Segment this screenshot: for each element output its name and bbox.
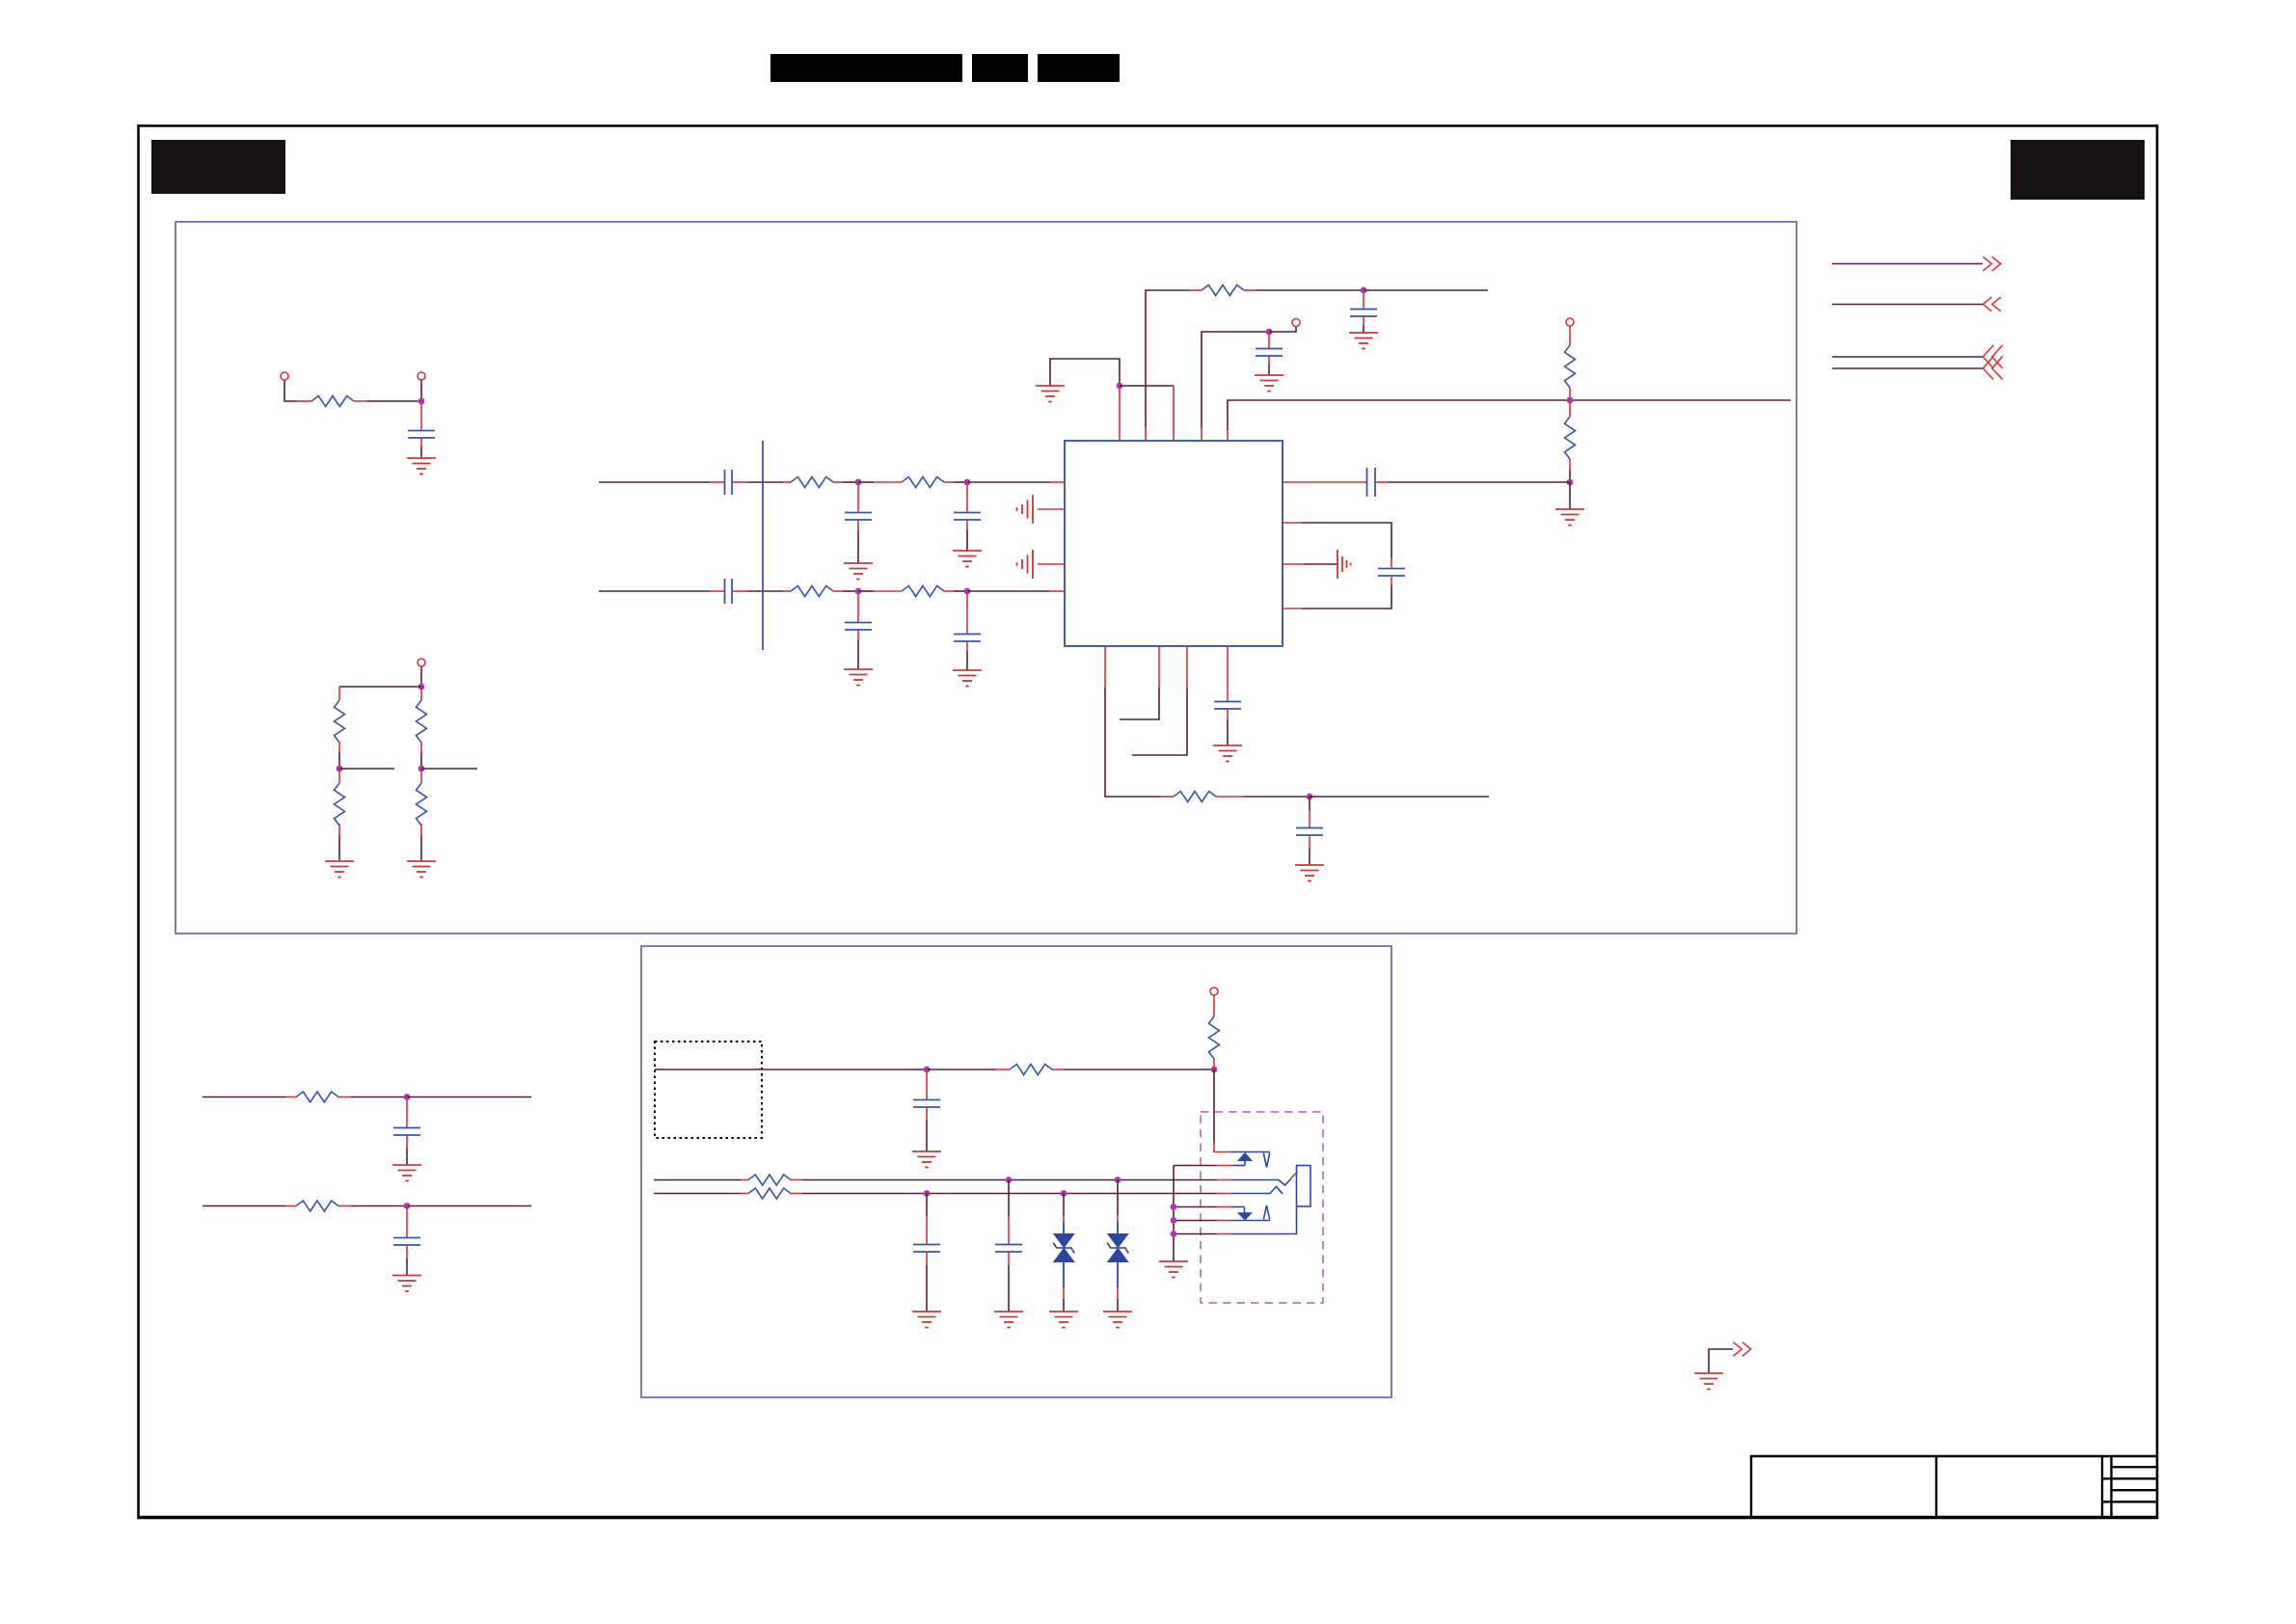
wire in2 — [599, 590, 710, 592]
wire port in — [1832, 304, 1983, 306]
ground — [1103, 1312, 1132, 1328]
junction node U — [924, 1190, 931, 1197]
wire node B to R4 — [420, 687, 422, 700]
wire P5 to R11 — [1569, 327, 1571, 346]
wire R14 to node O — [338, 1096, 351, 1098]
wire P1 to R1 — [284, 381, 296, 402]
wire R19 to jack — [791, 1193, 802, 1195]
chevron out — [1983, 257, 2000, 271]
rotated ground pin 2 — [1038, 508, 1065, 510]
resistor R13 — [1174, 792, 1216, 802]
jack contact V — [1263, 1153, 1269, 1168]
ground — [1036, 386, 1065, 402]
junction node N — [1307, 794, 1313, 800]
junction node J — [1361, 287, 1367, 294]
capacitor C8 — [1363, 290, 1364, 309]
resistor R8 — [791, 586, 833, 597]
jack contact lambda — [1263, 1205, 1269, 1220]
ground — [912, 1312, 941, 1328]
resistor R3 — [335, 783, 345, 826]
junction node S — [1006, 1177, 1013, 1183]
wire node F to U1 — [967, 481, 1049, 483]
wire node G to R9 — [858, 590, 874, 592]
resistor R7 — [902, 477, 944, 488]
ground U-link — [1050, 359, 1120, 386]
stub node N right — [1310, 796, 1489, 798]
wire node E to R7 — [858, 481, 874, 483]
resistor R5 — [417, 783, 427, 826]
wire vcc rail — [655, 1069, 912, 1070]
wire loop bottom — [1391, 576, 1392, 585]
wire R7 to node F — [944, 481, 954, 483]
resistor R12 — [1565, 417, 1576, 459]
ground — [844, 669, 873, 686]
resistor R17 — [1209, 1016, 1220, 1059]
junction node R — [1211, 1067, 1218, 1073]
ground — [994, 1312, 1023, 1328]
ground — [325, 861, 354, 878]
wire P3 down — [420, 667, 422, 688]
wire C2 out — [732, 481, 747, 483]
chevron in — [1983, 297, 2000, 311]
title redaction bar 3 — [1038, 54, 1120, 82]
wire R13 to node N — [1216, 796, 1244, 798]
junction node M — [1567, 479, 1574, 486]
resistor R15 — [296, 1201, 338, 1211]
ground — [407, 458, 436, 474]
wire R4 to node D — [420, 742, 422, 752]
TVS diode D1 — [1063, 1194, 1065, 1216]
bus stub vertical — [762, 441, 764, 650]
rotated ground pin 3 — [1038, 563, 1065, 565]
capacitor C6 — [857, 591, 859, 622]
capacitor C2 — [725, 470, 733, 495]
capacitor C9 — [1268, 332, 1270, 348]
ground — [1349, 333, 1378, 349]
junction node P — [404, 1203, 411, 1209]
wire C1 to ground — [420, 438, 422, 447]
ground — [392, 1165, 421, 1181]
terminal P2 — [418, 372, 425, 380]
wire node I right — [1120, 385, 1174, 387]
capacitor C18 — [1008, 1180, 1010, 1217]
wire P2 down — [420, 381, 422, 402]
resistor R2 — [335, 700, 345, 743]
redaction box top-right — [2011, 140, 2145, 200]
title block — [1750, 1456, 2157, 1517]
jack pin row 6 — [1174, 1220, 1217, 1222]
capacitor C10 — [1367, 468, 1376, 497]
jack plug body — [1297, 1166, 1311, 1207]
junction node V — [1061, 1190, 1067, 1197]
wire R12 to node M — [1569, 459, 1571, 470]
capacitor C11 — [1378, 569, 1405, 577]
ground — [953, 670, 982, 687]
junction node H — [964, 588, 971, 595]
junction node B — [419, 684, 425, 690]
wire R10 to node J — [1244, 289, 1256, 291]
capacitor C3 — [857, 482, 859, 512]
ground — [1694, 1373, 1723, 1390]
wire C5 out — [732, 590, 747, 592]
ground — [1255, 375, 1283, 392]
wire R11 to node L — [1569, 388, 1571, 400]
upper section box — [176, 222, 1796, 934]
terminal P1 — [281, 372, 288, 380]
title redaction bar 2 — [972, 54, 1028, 82]
resistor R14 — [296, 1092, 338, 1102]
junction node F — [964, 479, 971, 486]
wire pin4 riser — [1201, 428, 1202, 441]
IC U1 — [1065, 441, 1283, 646]
wire to R3 — [338, 769, 340, 783]
lower section box — [641, 946, 1391, 1397]
junction node T — [1115, 1177, 1121, 1183]
wire bus row tip — [654, 1179, 741, 1181]
wire pin riser — [1173, 386, 1175, 441]
wire gnd ref — [1709, 1349, 1733, 1373]
junction node W — [1171, 1204, 1177, 1210]
stub node C — [339, 768, 394, 770]
stub node O right — [407, 1096, 531, 1098]
dotted module box — [655, 1042, 762, 1138]
dashed jack outline — [1201, 1112, 1323, 1303]
wire in1 — [599, 481, 710, 483]
junction node O — [404, 1094, 411, 1100]
terminal P4 — [1292, 319, 1300, 327]
resistor R18 — [748, 1175, 791, 1185]
stub node D — [421, 768, 477, 770]
junction node Q — [924, 1067, 931, 1073]
wire R9 to node H — [944, 590, 954, 592]
wire mid2 — [203, 1205, 285, 1207]
capacitor C16 — [926, 1069, 928, 1099]
wire pin B2 stub — [1158, 646, 1160, 688]
jack switch down-arrow — [1244, 1207, 1246, 1214]
rotated ground pin right — [1283, 563, 1304, 565]
ground — [392, 1276, 421, 1292]
resistor R9 — [902, 586, 944, 597]
wire U1 out to C10 — [1283, 481, 1366, 483]
TVS diode D2 — [1117, 1180, 1119, 1216]
wire to R2 — [338, 687, 340, 700]
jack pin row A — [1229, 1151, 1270, 1153]
wire node H to U1 — [967, 590, 1049, 592]
redaction box top-left — [151, 140, 285, 194]
junction node L — [1567, 397, 1574, 404]
wire R8 to node G — [833, 590, 843, 592]
jack sleeve row 7 — [1174, 1233, 1217, 1235]
resistor R11 — [1565, 345, 1576, 388]
junction node A — [419, 398, 425, 405]
jack switch up-arrow — [1238, 1153, 1252, 1161]
junction node E — [855, 479, 862, 486]
wire R18 to jack — [791, 1179, 802, 1181]
wire R5 to ground — [420, 824, 422, 835]
jack pin row B — [1174, 1165, 1217, 1167]
capacitor C12 — [1309, 797, 1310, 810]
wire R15 to node P — [338, 1205, 351, 1207]
wire R17 to node R — [1213, 1059, 1215, 1069]
ground — [1295, 865, 1324, 881]
terminal P6 — [1210, 988, 1218, 995]
title redaction bar 1 — [770, 54, 962, 82]
stub node P right — [407, 1205, 531, 1207]
resistor R10 — [1202, 285, 1244, 296]
junction node C — [337, 766, 343, 772]
junction node I — [1117, 383, 1123, 390]
sheet border frame — [137, 124, 2158, 127]
ground — [912, 1151, 941, 1168]
wire node L to R12 — [1569, 400, 1571, 417]
wire node I to pin — [1119, 386, 1121, 441]
junction node K — [1266, 329, 1273, 336]
capacitor C5 — [725, 579, 733, 604]
wire R3 to ground — [338, 824, 340, 835]
capacitor C13 — [1227, 646, 1229, 701]
capacitor C15 — [406, 1206, 408, 1238]
wire mid1 — [203, 1096, 285, 1098]
wire R2 to node C — [338, 742, 340, 752]
wire loop top — [1283, 522, 1302, 524]
wire R16 to node R — [1052, 1069, 1065, 1070]
wire pin5 riser — [1227, 430, 1229, 441]
ground — [953, 551, 982, 567]
wire node K to terminal — [1269, 327, 1296, 332]
capacitor C7 — [966, 591, 968, 634]
resistor R19 — [748, 1188, 791, 1199]
wire node A to C1 — [420, 401, 422, 430]
ground — [407, 861, 436, 878]
wire pin B3 stub — [1186, 646, 1188, 688]
wire node R to jack — [1213, 1069, 1215, 1143]
junction node G — [855, 588, 862, 595]
resistor R4 — [417, 700, 427, 743]
ground — [1049, 1312, 1078, 1328]
resistor R1 — [311, 396, 354, 407]
junction node X — [1171, 1217, 1177, 1224]
resistor R6 — [791, 477, 833, 488]
wire node Q to R16 — [927, 1069, 995, 1070]
junction node Y — [1171, 1231, 1177, 1237]
wire P6 to R17 — [1213, 996, 1215, 1017]
junction node D — [419, 766, 425, 772]
capacitor C4 — [966, 482, 968, 512]
wire node M to ground — [1569, 482, 1571, 509]
capacitor C17 — [926, 1194, 928, 1217]
jack ground bus — [1173, 1166, 1175, 1262]
wire node B left — [339, 686, 421, 688]
resistor R16 — [1010, 1065, 1052, 1075]
wire R1 to node — [354, 400, 367, 402]
jack tip contact — [1231, 1178, 1291, 1185]
ground — [1555, 509, 1584, 526]
wire R6 to node E — [833, 481, 843, 483]
stub node J right — [1364, 289, 1488, 291]
capacitor C1 — [408, 431, 435, 439]
jack ring contact — [1231, 1187, 1283, 1194]
wire to R5 — [420, 769, 422, 783]
wire bus row ring — [654, 1193, 741, 1195]
jack pin row 5 — [1174, 1206, 1217, 1208]
terminal P5 — [1566, 318, 1574, 326]
wire port out — [1832, 263, 1983, 265]
terminal P3 — [418, 659, 425, 666]
wire C10 to node M — [1375, 481, 1389, 483]
ground — [1159, 1261, 1188, 1278]
wire pin B1 — [1104, 646, 1106, 688]
ground — [844, 563, 873, 580]
capacitor C14 — [406, 1097, 408, 1128]
chevron pair — [1983, 345, 2002, 380]
chevron gnd ref — [1733, 1342, 1750, 1357]
wire port pair B — [1832, 367, 1983, 369]
wire port pair A — [1832, 356, 1983, 358]
ground — [1213, 745, 1242, 762]
wire feedback riser — [1145, 427, 1147, 441]
